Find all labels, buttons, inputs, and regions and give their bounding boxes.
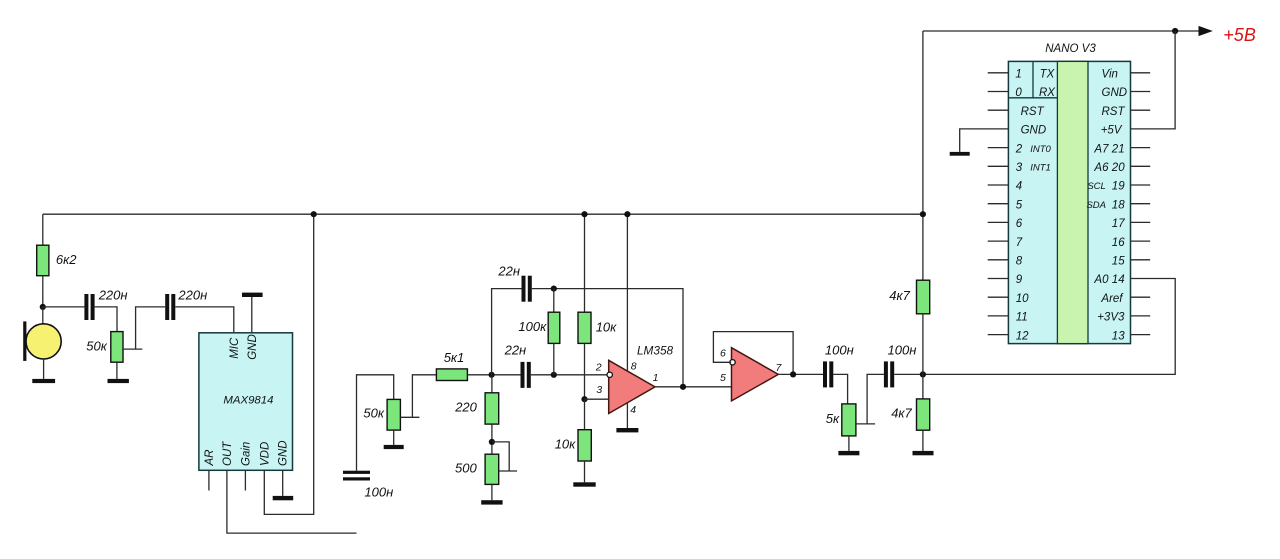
svg-text:20: 20: [1111, 162, 1125, 174]
microphone BM1: [26, 324, 61, 359]
svg-text:17: 17: [1112, 218, 1125, 230]
IC A1 green center column: [1057, 61, 1088, 343]
svg-text:100н: 100н: [364, 485, 393, 500]
capacitor C2 220н: [165, 294, 169, 320]
resistor 4к7 top: [917, 280, 930, 314]
potentiometer 50к (R2): [111, 332, 123, 363]
svg-text:3: 3: [1016, 162, 1023, 174]
wire 10к-2 to ground: [584, 461, 586, 482]
wire node A to 220: [491, 375, 493, 393]
node pin2 / 100к bottom: [551, 372, 557, 378]
wire rail riser to 6k2: [42, 214, 44, 245]
node bias divider output: [920, 371, 926, 377]
wire pin8 riser from rail: [626, 214, 628, 371]
svg-text:1: 1: [653, 372, 659, 384]
wire mic to ground: [43, 359, 45, 379]
wire nano GND pin: [960, 129, 1009, 152]
svg-text:RST: RST: [1021, 106, 1045, 118]
wire +5V top rail: [923, 30, 1199, 32]
arrow +5V: [1199, 26, 1213, 36]
svg-text:+3V3: +3V3: [1097, 312, 1125, 324]
svg-text:220: 220: [454, 400, 477, 415]
svg-text:3: 3: [596, 384, 602, 396]
potentiometer 5к: [842, 404, 856, 436]
wire C1 to pot 50к top: [95, 307, 117, 332]
wire pot 50к bottom to ground: [116, 362, 118, 379]
wire node B bypass to 500 wiper: [492, 442, 509, 471]
ground 5к: [838, 451, 859, 455]
svg-text:220н: 220н: [98, 288, 128, 303]
svg-text:RST: RST: [1102, 106, 1126, 118]
svg-text:4: 4: [1016, 181, 1022, 193]
svg-text:10к: 10к: [555, 437, 576, 452]
node mic junction: [40, 304, 46, 310]
svg-text:2: 2: [1015, 143, 1023, 155]
pin stubs left: [988, 73, 1009, 335]
wire +5V rail: [43, 213, 923, 215]
svg-text:5: 5: [720, 372, 726, 384]
resistor 5к1: [436, 369, 467, 381]
wire feedback horizontal to output: [532, 289, 683, 387]
ground 10к-2: [573, 482, 595, 486]
resistor 220: [485, 393, 499, 424]
wire 500 to ground: [491, 484, 493, 500]
svg-text:+5В: +5В: [1223, 25, 1256, 45]
svg-text:7: 7: [1016, 237, 1023, 249]
wire 10к-1 riser from rail: [584, 214, 586, 312]
svg-text:SDA: SDA: [1086, 200, 1106, 211]
wire C6 to 5к pot top: [833, 374, 847, 404]
wire op2 feedback loop: [713, 332, 793, 375]
svg-text:100н: 100н: [825, 343, 854, 358]
IC U1 MAX9814 body: [199, 333, 293, 471]
svg-text:GND: GND: [247, 334, 259, 360]
wire 5к bottom to ground: [848, 436, 850, 451]
ground mic: [32, 379, 55, 383]
node feedback 100к top: [551, 286, 557, 292]
pin stub AR: [208, 470, 210, 490]
svg-text:8: 8: [1016, 256, 1023, 268]
wire feedback riser from node A: [492, 289, 522, 375]
node pin8 rail junction: [624, 211, 630, 217]
node B 220/500 junction: [489, 439, 495, 445]
capacitor C3 100н: [343, 471, 370, 474]
wire OUT to C3: [227, 470, 357, 533]
svg-text:1: 1: [1015, 69, 1021, 81]
svg-text:4к7: 4к7: [891, 406, 912, 421]
wire 100к top stem: [553, 289, 555, 313]
wire op1 output to op2 pin5: [655, 386, 732, 388]
svg-text:SCL: SCL: [1087, 181, 1105, 192]
node +5V nano junction: [1172, 28, 1178, 34]
svg-text:LM358: LM358: [637, 343, 674, 357]
wire 5к wiper to C7: [856, 374, 884, 424]
svg-text:21: 21: [1111, 143, 1125, 155]
svg-text:AR: AR: [204, 450, 216, 467]
wire C3 up to pot 50к-2: [357, 375, 394, 471]
svg-text:MAX9814: MAX9814: [223, 394, 273, 406]
wire node to mic: [42, 307, 44, 324]
wire pin3 to op-amp: [585, 398, 609, 400]
svg-text:VDD: VDD: [259, 442, 271, 466]
op-amp U2.1 inverting input circle: [607, 372, 612, 377]
wire +5 riser x=923: [922, 31, 924, 280]
wire 500 wiper tick: [499, 470, 517, 472]
ground pot 50к: [108, 379, 129, 383]
svg-text:5: 5: [1016, 199, 1023, 211]
microphone plate bar: [23, 321, 26, 361]
svg-text:GND: GND: [1102, 87, 1128, 99]
capacitor C6 100н: [823, 361, 827, 387]
wire VDD to rail: [264, 214, 313, 514]
serial sub-box lines: [1008, 61, 1057, 97]
node pin3: [581, 396, 587, 402]
svg-text:5к1: 5к1: [444, 350, 465, 365]
wire node to C1: [43, 306, 85, 308]
svg-text:RX: RX: [1039, 87, 1056, 99]
wire 6k2 to mic node: [42, 276, 44, 307]
svg-text:12: 12: [1016, 330, 1029, 342]
resistor 100к: [548, 312, 560, 343]
wire 4к7 bottom to ground: [922, 430, 924, 451]
svg-text:9: 9: [1016, 274, 1023, 286]
svg-text:A0: A0: [1093, 274, 1109, 286]
capacitor 22н feedback (C5): [522, 276, 526, 302]
svg-text:16: 16: [1112, 237, 1125, 249]
wire pin3 down to 10к-2: [584, 399, 586, 430]
wire GND pin to top ground: [251, 297, 253, 333]
potentiometer 500 (R5): [485, 454, 499, 484]
wire nano +5V pin: [1131, 31, 1176, 129]
ground 4к7: [913, 451, 934, 455]
wire 5к1 to node A: [467, 374, 520, 376]
svg-text:10к: 10к: [596, 320, 617, 335]
IC A1 NANO V3 body: [1008, 61, 1130, 343]
svg-text:INT1: INT1: [1030, 163, 1051, 174]
svg-text:220н: 220н: [177, 288, 207, 303]
capacitor C1 220н: [84, 294, 88, 320]
svg-text:10: 10: [1016, 293, 1029, 305]
svg-text:50к: 50к: [363, 406, 384, 421]
potentiometer 50к (R3): [387, 399, 400, 430]
ground op-amp U2.1: [616, 428, 638, 432]
svg-text:0: 0: [1015, 87, 1022, 99]
op-amp U2.1 LM358: [609, 360, 655, 413]
svg-text:15: 15: [1112, 256, 1125, 268]
svg-text:19: 19: [1112, 181, 1125, 193]
svg-text:6: 6: [720, 347, 726, 359]
svg-text:22н: 22н: [497, 263, 520, 278]
svg-text:18: 18: [1112, 199, 1125, 211]
svg-text:OUT: OUT: [222, 441, 234, 466]
node VDD rail junction: [311, 211, 317, 217]
pin stubs right: [1131, 73, 1151, 335]
wire C4 to op-amp pin2: [531, 374, 609, 376]
node op2 output: [790, 371, 796, 377]
svg-text:8: 8: [631, 360, 637, 372]
capacitor 22н input (C4): [521, 362, 525, 388]
svg-text:13: 13: [1112, 330, 1125, 342]
ground 500: [481, 500, 502, 504]
wire 10к-1 bottom to pin3 node: [584, 343, 586, 399]
wire pin4 to ground: [626, 403, 628, 428]
wire node to 4к7 bottom: [922, 374, 924, 399]
svg-text:4: 4: [630, 404, 636, 416]
ground pot 50к-2: [384, 445, 404, 449]
svg-text:2: 2: [595, 361, 602, 373]
svg-text:6: 6: [1016, 218, 1023, 230]
svg-text:Aref: Aref: [1100, 293, 1124, 305]
wire 4к7 top to node: [922, 314, 924, 375]
wire pot 50к-2 wiper to 5к1: [400, 375, 436, 418]
svg-text:100н: 100н: [888, 343, 917, 358]
svg-text:500: 500: [455, 461, 477, 476]
svg-text:GND: GND: [1021, 125, 1047, 137]
svg-text:GND: GND: [278, 440, 290, 466]
svg-text:+5V: +5V: [1101, 125, 1123, 137]
node rail corner junction: [920, 211, 926, 217]
resistor R1 6к2: [37, 245, 49, 276]
wire pot 50к wiper: [123, 307, 165, 349]
wire 220 to node B: [491, 424, 493, 454]
wire pot 50к-2 bottom to ground: [393, 430, 395, 445]
ground top of GND pin: [242, 293, 263, 297]
svg-text:14: 14: [1112, 274, 1125, 286]
svg-text:11: 11: [1016, 312, 1028, 324]
wire C2 to MIC pin: [175, 307, 234, 333]
svg-text:INT0: INT0: [1030, 144, 1051, 155]
svg-text:22н: 22н: [504, 343, 527, 358]
wire 100к bottom stem: [553, 343, 555, 374]
svg-text:A6: A6: [1093, 162, 1109, 174]
ground MAX9814: [273, 496, 294, 500]
svg-text:Vin: Vin: [1102, 69, 1118, 81]
svg-text:5к: 5к: [826, 411, 840, 426]
svg-text:A7: A7: [1093, 143, 1109, 155]
svg-text:NANO V3: NANO V3: [1045, 43, 1096, 55]
op-amp U2.2 LM358: [732, 348, 779, 401]
svg-text:Gain: Gain: [241, 442, 253, 466]
ground nano: [950, 152, 970, 156]
svg-text:50к: 50к: [86, 338, 107, 353]
wire C7 to A0 line: [894, 279, 1175, 375]
wire GND pin to ground: [282, 470, 284, 496]
node op1 output: [680, 384, 686, 390]
svg-text:6к2: 6к2: [56, 252, 77, 267]
svg-text:100к: 100к: [518, 319, 547, 334]
resistor 10к-1: [578, 312, 591, 343]
svg-text:4к7: 4к7: [889, 288, 910, 303]
capacitor C7 100н: [884, 361, 888, 387]
node 10к rail junction: [581, 211, 587, 217]
pin stub Gain: [244, 470, 246, 490]
resistor 4к7 bottom: [917, 399, 930, 430]
wire op2 output: [778, 373, 823, 375]
svg-text:7: 7: [776, 362, 783, 374]
svg-text:MIC: MIC: [229, 337, 241, 359]
resistor 10к-2: [578, 430, 591, 461]
node A: [489, 372, 495, 378]
svg-text:TX: TX: [1040, 69, 1056, 81]
op-amp U2.2 inverting input circle: [730, 360, 735, 365]
